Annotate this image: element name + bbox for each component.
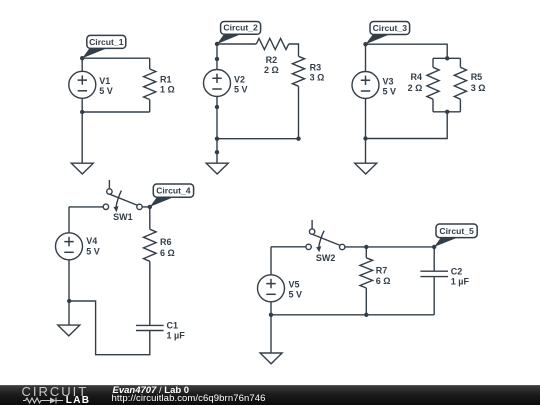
wire top spreader circuit 3: [433, 57, 460, 59]
svg-text:V4: V4: [86, 236, 97, 246]
wire top rail circuit 3: [366, 44, 448, 58]
capacitor C2: [420, 270, 448, 272]
wire left rail circuit 3: [365, 44, 367, 163]
wire from V5 to SW2 throw: [271, 246, 306, 248]
svg-text:Circut_1: Circut_1: [89, 37, 124, 47]
svg-text:Circut_5: Circut_5: [439, 226, 474, 236]
svg-text:5 V: 5 V: [383, 86, 397, 96]
svg-text:SW2: SW2: [316, 253, 336, 263]
svg-text:5 V: 5 V: [234, 84, 248, 94]
junction dots circuit 2: [215, 42, 219, 46]
label Circut_1 callout: [82, 48, 107, 58]
wire left rail circuit 1: [81, 58, 83, 163]
svg-text:Circut_4: Circut_4: [156, 186, 191, 196]
wire top rail circuit 2: [217, 43, 256, 45]
voltage source V4: [56, 233, 83, 260]
voltage source V2: [204, 70, 231, 97]
svg-text:C1: C1: [167, 320, 179, 330]
wire top rail to C2: [366, 246, 434, 248]
ground circuit 2: [206, 163, 228, 174]
resistor R4: [432, 58, 434, 67]
svg-text:R1: R1: [160, 74, 172, 84]
wire SW1 common to node: [142, 206, 150, 208]
voltage source V1: [69, 71, 96, 98]
svg-text:6 Ω: 6 Ω: [376, 276, 391, 286]
junction dots circuit 3: [363, 42, 367, 46]
resistor R2: [256, 39, 288, 50]
wire right rail circuit 2: [298, 86, 300, 139]
switch SW1: [108, 180, 110, 192]
svg-text:SW1: SW1: [113, 212, 133, 222]
svg-text:R4: R4: [410, 72, 422, 82]
wire C1 bottom loop: [69, 301, 150, 355]
svg-text:R5: R5: [471, 72, 483, 82]
svg-text:LAB: LAB: [66, 395, 90, 404]
resistor R6: [144, 229, 157, 261]
ground circuit 4: [58, 325, 80, 336]
resistor R5: [459, 58, 461, 67]
wire top right circuit 2: [289, 44, 299, 56]
wire R6 branch down: [149, 207, 151, 229]
svg-text:5 V: 5 V: [289, 290, 303, 300]
svg-text:1 Ω: 1 Ω: [160, 84, 175, 94]
label Circut_3 callout: [366, 34, 391, 44]
svg-text:3 Ω: 3 Ω: [471, 83, 486, 93]
junction dot circuit 4: [67, 299, 71, 303]
wire left rail circuit 2: [216, 44, 218, 163]
switch SW2: [311, 220, 313, 232]
wire bottom rail circuit 3: [366, 112, 448, 139]
svg-text:5 V: 5 V: [99, 86, 113, 96]
svg-text:V5: V5: [289, 280, 300, 290]
node A junction dot: [80, 56, 84, 60]
user / title text: [113, 385, 190, 396]
node B junction dot: [80, 110, 84, 114]
svg-text:C2: C2: [451, 267, 463, 277]
wire bottom rail circuit 1: [82, 111, 150, 113]
svg-text:1 µF: 1 µF: [167, 330, 186, 340]
svg-text:R2: R2: [266, 55, 278, 65]
capacitor C1: [136, 324, 164, 326]
url text: [112, 393, 266, 404]
junction dots circuit 5: [364, 245, 368, 249]
wire bottom rail circuit 2: [217, 138, 299, 140]
CircuitLab logo: [22, 385, 92, 404]
svg-text:V1: V1: [99, 76, 110, 86]
svg-text:V2: V2: [234, 74, 245, 84]
svg-text:V3: V3: [383, 76, 394, 86]
wire left rail circuit 4: [68, 207, 70, 325]
label Circut_5 callout: [434, 237, 458, 247]
wire bottom spreader circuit 3: [433, 111, 460, 113]
node dot SW1 output: [148, 205, 152, 209]
resistor R3: [292, 56, 304, 86]
footer bar: [0, 385, 540, 405]
resistor R1: [149, 58, 151, 69]
svg-text:3 Ω: 3 Ω: [310, 73, 325, 83]
wire from V4 to SW1 throw: [69, 206, 103, 208]
svg-text:Circut_2: Circut_2: [223, 23, 258, 33]
wire SW2 common to R7 node: [345, 246, 366, 248]
wire top rail circuit 1: [82, 57, 150, 59]
svg-text:2 Ω: 2 Ω: [264, 65, 279, 75]
voltage source V5: [258, 275, 285, 302]
resistor R7: [365, 247, 367, 258]
ground circuit 3: [355, 163, 377, 174]
svg-text:5 V: 5 V: [86, 247, 100, 257]
voltage source V3: [352, 72, 379, 99]
label Circut_2 callout: [217, 34, 241, 44]
wire bottom rail circuit 5: [271, 314, 434, 316]
svg-text:R7: R7: [376, 265, 388, 275]
wire left rail circuit 5: [270, 247, 272, 353]
svg-text:R3: R3: [310, 63, 322, 73]
ground circuit 1: [71, 163, 93, 174]
svg-text:1 µF: 1 µF: [451, 277, 470, 287]
label Circut_4 callout: [150, 197, 174, 207]
ground circuit 5: [260, 353, 282, 364]
svg-text:6 Ω: 6 Ω: [160, 248, 175, 258]
svg-text:R6: R6: [160, 237, 172, 247]
wire C2 branch: [433, 247, 435, 271]
wire C2 to bottom rail: [433, 277, 435, 315]
svg-text:Circut_3: Circut_3: [373, 23, 408, 33]
wire R6 to C1: [149, 261, 151, 325]
svg-text:2 Ω: 2 Ω: [408, 83, 423, 93]
